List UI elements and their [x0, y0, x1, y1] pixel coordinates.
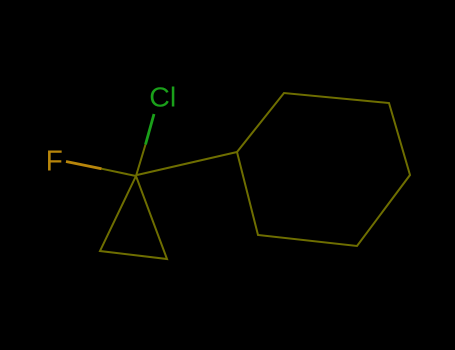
- wire C-F bond fluorine half: [66, 162, 102, 169]
- svg-text:Cl: Cl: [149, 82, 176, 113]
- cyclopropane ring: [100, 176, 167, 259]
- svg-text:F: F: [46, 145, 63, 177]
- wire C-Cl bond chlorine half: [146, 114, 155, 145]
- cyclohexane ring: [237, 93, 410, 246]
- wire C-Cl bond carbon half: [136, 145, 146, 177]
- wire C1-phenyl bond: [137, 152, 237, 175]
- wire C-F bond carbon half: [102, 169, 137, 176]
